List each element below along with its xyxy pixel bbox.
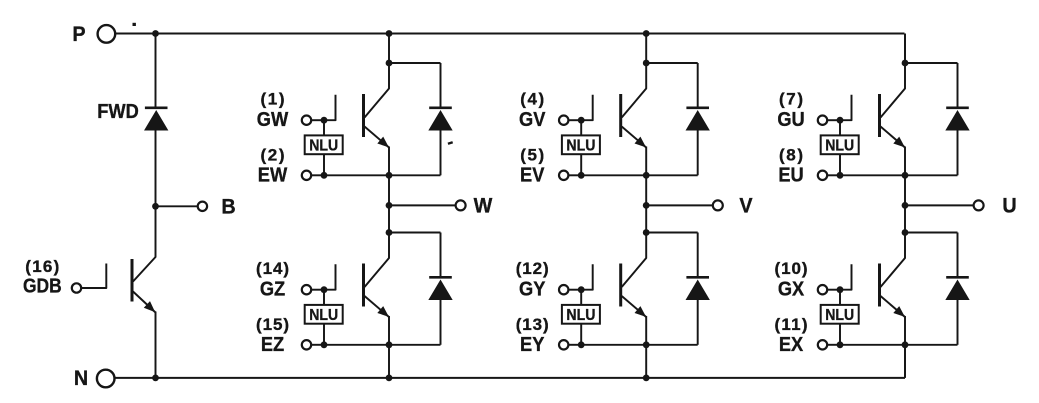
wire — [389, 232, 441, 234]
wire — [155, 34, 157, 108]
wire — [389, 204, 456, 206]
diode DU (upper U freewheel) — [946, 108, 969, 130]
label FWD — [97, 100, 139, 123]
svg-text:(2): (2) — [261, 146, 285, 165]
wire — [389, 344, 441, 346]
junction dot GX — [837, 286, 844, 293]
svg-text:(16): (16) — [25, 257, 59, 276]
wire — [388, 345, 390, 378]
junction dot GZ — [321, 286, 328, 293]
gate lead of GZ transistor — [324, 264, 336, 290]
svg-text:GX: GX — [778, 278, 804, 301]
wire — [957, 63, 959, 108]
node collector Z — [386, 229, 393, 236]
node collector Y — [643, 229, 650, 236]
junction dot EU — [837, 172, 844, 179]
svg-text:EY: EY — [520, 333, 544, 356]
wire — [580, 324, 582, 345]
svg-text:NLU: NLU — [309, 136, 338, 154]
wire N bus (bottom rail) — [114, 377, 905, 379]
wire — [905, 62, 958, 64]
NLU box GU — [821, 135, 859, 154]
wire — [156, 205, 198, 207]
svg-text:EU: EU — [778, 164, 803, 187]
junction dot EX — [837, 341, 844, 348]
wire — [440, 300, 442, 345]
node collector X — [902, 229, 909, 236]
wire — [323, 120, 325, 135]
label pin (1) GW — [257, 89, 289, 131]
wire — [440, 63, 442, 108]
svg-text:W: W — [474, 194, 493, 218]
wire — [311, 174, 324, 176]
label pin (14) GZ — [256, 259, 289, 301]
wire — [840, 174, 905, 176]
wire — [827, 344, 840, 346]
svg-text:(5): (5) — [520, 146, 544, 165]
wire — [646, 62, 698, 64]
wire — [323, 324, 325, 345]
junction dot GY — [578, 286, 585, 293]
junction dot EW — [321, 172, 328, 179]
wire — [904, 175, 906, 205]
label pin (10) GX — [775, 259, 808, 301]
emitter terminal EV — [559, 171, 568, 180]
junction dot — [643, 30, 650, 37]
wire — [580, 154, 582, 175]
NLU box GX — [821, 305, 859, 324]
wire — [568, 174, 581, 176]
label pin (12) GY — [516, 259, 549, 301]
svg-text:B: B — [221, 195, 235, 219]
junction dot emitter V — [643, 172, 650, 179]
svg-text:FWD: FWD — [97, 100, 139, 123]
wire — [697, 300, 699, 345]
wire — [311, 344, 324, 346]
transistor Z (lower W-phase IGBT) — [364, 233, 390, 345]
gate lead of GY transistor — [581, 264, 593, 290]
wire — [568, 289, 581, 291]
gate lead of GDB — [81, 264, 106, 289]
label pin (7) GU — [777, 89, 804, 131]
gate terminal GY — [559, 285, 568, 294]
wire — [839, 324, 841, 345]
transistor X (lower U-phase IGBT) — [880, 233, 906, 345]
wire — [324, 344, 389, 346]
svg-text:NLU: NLU — [309, 306, 338, 324]
wire — [904, 345, 906, 378]
svg-text:NLU: NLU — [825, 136, 854, 154]
wire — [904, 34, 906, 64]
svg-text:EZ: EZ — [261, 333, 284, 356]
junction dot — [643, 375, 650, 382]
wire — [646, 232, 698, 234]
wire — [388, 175, 390, 205]
terminal P — [72, 22, 115, 46]
wire — [839, 154, 841, 175]
junction dot — [152, 30, 159, 37]
wire — [905, 232, 958, 234]
NLU box GZ — [305, 305, 343, 324]
transistor U (upper U-phase IGBT) — [880, 63, 906, 175]
wire — [323, 290, 325, 305]
wire — [568, 344, 581, 346]
junction dot node B — [152, 203, 159, 210]
emitter terminal EW — [302, 171, 311, 180]
svg-text:V: V — [739, 194, 752, 218]
label pin (11) EX — [775, 315, 808, 356]
wire — [646, 174, 698, 176]
label pin (16) GDB — [23, 257, 62, 298]
junction dot EZ — [321, 341, 328, 348]
wire — [645, 205, 647, 232]
NLU box GW — [305, 135, 343, 154]
label pin (13) EY — [516, 315, 549, 356]
wire — [697, 130, 699, 175]
svg-text:GU: GU — [777, 108, 804, 131]
wire — [827, 174, 840, 176]
diode DV (upper V freewheel) — [686, 108, 709, 130]
svg-text:(11): (11) — [775, 315, 808, 334]
terminal N — [74, 366, 115, 390]
svg-text:(1): (1) — [261, 89, 285, 108]
junction dot — [386, 375, 393, 382]
svg-text:(7): (7) — [779, 89, 803, 108]
junction dot — [386, 30, 393, 37]
svg-text:GZ: GZ — [260, 278, 285, 301]
gate lead of GV transistor — [581, 95, 593, 121]
wire — [311, 119, 324, 121]
NLU box GV — [562, 135, 600, 154]
junction dot GU — [837, 117, 844, 124]
transistor GDB (brake IGBT) — [132, 206, 156, 378]
gate terminal GDB — [72, 283, 81, 292]
transistor Y (lower V-phase IGBT) — [621, 233, 647, 345]
terminal V — [713, 194, 753, 218]
wire — [581, 174, 646, 176]
svg-text:GY: GY — [519, 278, 545, 301]
wire — [440, 130, 442, 175]
wire — [646, 204, 713, 206]
gate terminal GX — [818, 285, 827, 294]
transistor W (upper W-phase IGBT) — [364, 63, 390, 175]
svg-text:(13): (13) — [516, 315, 549, 334]
wire — [645, 34, 647, 64]
diode FWD — [145, 108, 168, 130]
svg-text:(8): (8) — [779, 146, 803, 165]
wire — [115, 33, 156, 35]
junction dot emitter Y — [643, 341, 650, 348]
svg-text:P: P — [72, 22, 85, 46]
gate terminal GU — [818, 116, 827, 125]
wire — [155, 130, 157, 206]
node collector W-top — [386, 60, 393, 67]
node V — [643, 202, 650, 209]
terminal U — [974, 194, 1017, 218]
wire — [827, 119, 840, 121]
wire — [389, 174, 441, 176]
wire — [580, 120, 582, 135]
gate terminal GZ — [302, 285, 311, 294]
wire — [839, 290, 841, 305]
emitter terminal EY — [559, 340, 568, 349]
node collector U-top — [902, 60, 909, 67]
wire — [840, 344, 905, 346]
wire — [827, 289, 840, 291]
wire — [904, 205, 906, 232]
wire — [388, 34, 390, 64]
junction dot EV — [578, 172, 585, 179]
wire — [905, 204, 974, 206]
terminal W — [456, 194, 493, 218]
junction dot GW — [321, 117, 328, 124]
gate lead of GX transistor — [840, 264, 852, 290]
wire P bus (top rail) — [156, 33, 905, 35]
wire — [311, 289, 324, 291]
svg-text:(4): (4) — [520, 89, 544, 108]
node U — [902, 202, 909, 209]
junction dot emitter Z — [386, 341, 393, 348]
diode DY (lower V freewheel) — [686, 277, 709, 299]
wire — [697, 233, 699, 278]
junction dot EY — [578, 341, 585, 348]
label pin (5) EV — [520, 146, 544, 187]
svg-text:U: U — [1002, 194, 1016, 218]
wire — [645, 175, 647, 205]
diode DW (upper W freewheel) — [429, 108, 452, 130]
label pin (4) GV — [519, 89, 545, 131]
NLU box GY — [562, 305, 600, 324]
wire — [957, 233, 959, 278]
wire — [645, 345, 647, 378]
svg-text:GDB: GDB — [23, 275, 62, 298]
svg-text:NLU: NLU — [566, 306, 595, 324]
svg-text:EV: EV — [520, 164, 544, 187]
label pin (15) EZ — [256, 315, 289, 356]
wire — [839, 120, 841, 135]
wire — [568, 119, 581, 121]
junction dot — [152, 375, 159, 382]
junction dot emitter W — [386, 172, 393, 179]
svg-text:EX: EX — [779, 333, 803, 356]
label pin (2) EW — [258, 146, 288, 187]
emitter terminal EZ — [302, 340, 311, 349]
wire — [697, 63, 699, 108]
node W — [386, 202, 393, 209]
wire — [905, 174, 958, 176]
wire — [646, 344, 698, 346]
wire — [388, 205, 390, 232]
wire — [324, 174, 389, 176]
svg-text:GV: GV — [519, 108, 545, 131]
emitter terminal EX — [818, 340, 827, 349]
wire — [323, 154, 325, 175]
diode DZ (lower W freewheel) — [429, 277, 452, 299]
svg-text:(14): (14) — [256, 259, 289, 278]
svg-text:(12): (12) — [516, 259, 549, 278]
gate lead of GW transistor — [324, 95, 336, 121]
wire — [957, 300, 959, 345]
junction dot emitter X — [902, 341, 909, 348]
junction dot emitter U — [902, 172, 909, 179]
label pin (8) EU — [778, 146, 803, 187]
gate terminal GW — [302, 116, 311, 125]
wire — [389, 62, 441, 64]
wire — [581, 344, 646, 346]
svg-text:(15): (15) — [256, 315, 289, 334]
wire — [440, 233, 442, 278]
transistor V (upper V-phase IGBT) — [621, 63, 647, 175]
junction dot GV — [578, 117, 585, 124]
wire — [905, 344, 958, 346]
gate terminal GV — [559, 116, 568, 125]
node collector V-top — [643, 60, 650, 67]
speck artifact — [448, 141, 453, 145]
svg-text:(10): (10) — [775, 259, 808, 278]
emitter terminal EU — [818, 171, 827, 180]
gate lead of GU transistor — [840, 95, 852, 121]
svg-text:EW: EW — [258, 164, 288, 187]
svg-text:N: N — [74, 366, 88, 390]
svg-text:NLU: NLU — [825, 306, 854, 324]
speck artifact — [133, 23, 136, 26]
svg-text:NLU: NLU — [566, 136, 595, 154]
terminal B — [198, 195, 236, 219]
wire — [957, 130, 959, 175]
wire — [580, 290, 582, 305]
svg-text:GW: GW — [257, 108, 289, 131]
diode DX (lower U freewheel) — [946, 277, 969, 299]
